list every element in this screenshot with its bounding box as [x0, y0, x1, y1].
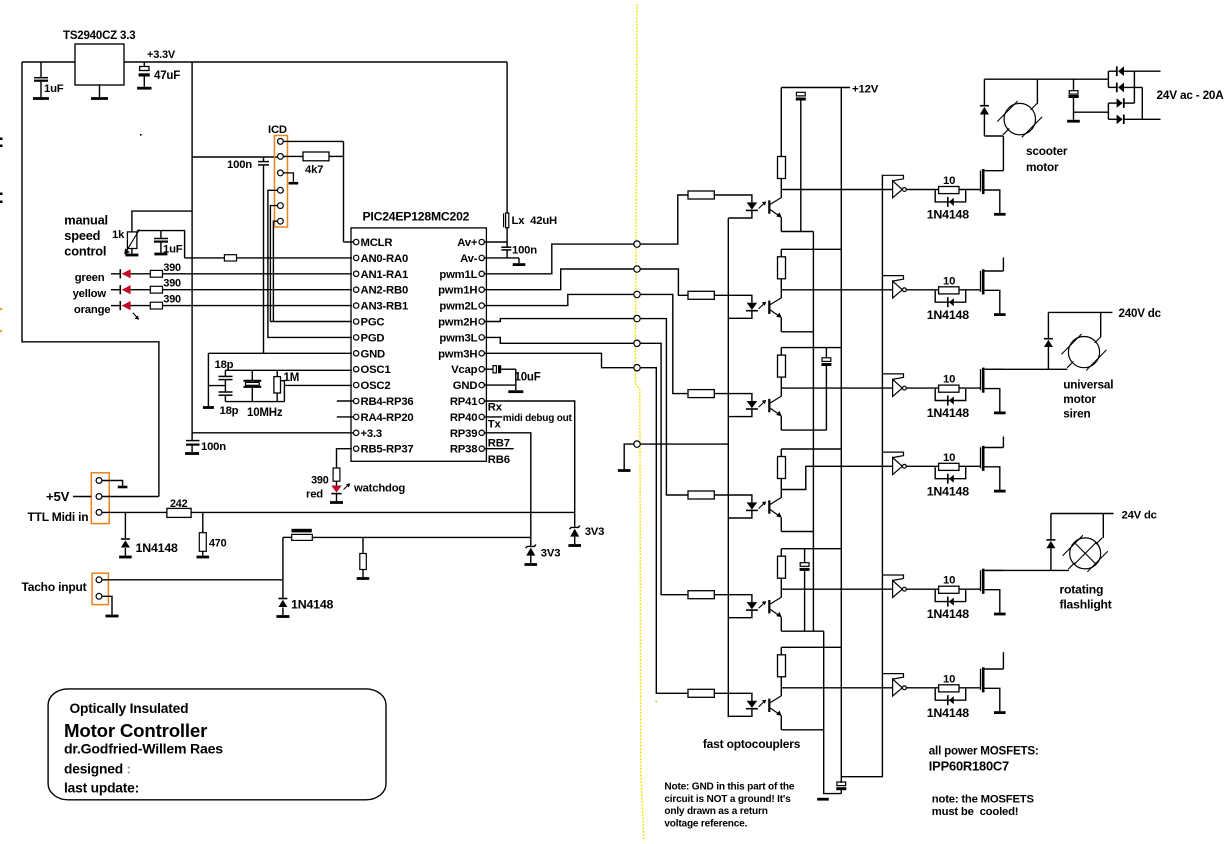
diode D15 1N4148 (gate) [935, 590, 966, 602]
ground for C14 [1067, 120, 1080, 123]
wire bridge AC2 vertical [1141, 87, 1143, 119]
wire node4 to opto4 input [640, 319, 688, 495]
wire node5 to opto5 input [640, 343, 688, 594]
resistor R36 10 (gate) [939, 685, 959, 692]
wire +12V tap stage 4 [780, 449, 782, 457]
wire bridge DC+ vertical [1107, 71, 1109, 87]
wire Q5 drain to flashlight [985, 569, 1069, 571]
wire pull-up 2 bottom lead [780, 279, 782, 290]
wire pwm1L to node [484, 244, 633, 274]
U1 left pin AN3-RB1 [354, 303, 359, 308]
ground for Q1 source [994, 213, 1006, 216]
MOSFET Q4 [980, 447, 982, 468]
wire regulator output +3.3V rail [124, 61, 507, 63]
svg-text:pwm3H: pwm3H [438, 348, 477, 360]
svg-text:1N4148: 1N4148 [136, 541, 179, 555]
U1 left pin OSC2 [354, 382, 359, 387]
ground for return node [618, 469, 631, 472]
resistor R15 (opto 5 input) [688, 591, 714, 599]
svg-text:10: 10 [943, 175, 955, 187]
wire J2 pin1 to ground [102, 481, 123, 486]
svg-text:MCLR: MCLR [361, 237, 393, 249]
wire emitter return bus [812, 232, 814, 632]
wire 18p midpoint to ground net [208, 385, 225, 387]
wire +12V tap stage 2 [780, 249, 782, 256]
svg-text:pwm2L: pwm2L [439, 301, 477, 313]
ground for D3 [525, 563, 538, 566]
svg-text:+3.3: +3.3 [361, 428, 383, 440]
svg-text:1N4148: 1N4148 [927, 406, 970, 420]
potentiometer wiper arrow [126, 230, 140, 253]
opto 1 coupling arrow [759, 203, 765, 209]
svg-text:Motor Controller: Motor Controller [64, 720, 207, 741]
optocoupler U6 LED [747, 502, 758, 509]
svg-text:yellow: yellow [73, 288, 107, 300]
wire orange LED to PIC [163, 305, 353, 307]
svg-text:390: 390 [163, 294, 181, 306]
wire buffer 6 output [906, 687, 938, 689]
U1 right pin pwm1L [479, 271, 484, 276]
wire Q4 drain stub [1002, 437, 1004, 448]
wire pull-up 1 bottom lead [780, 179, 782, 190]
wire LED return bus [727, 218, 729, 717]
svg-text:1N4148: 1N4148 [927, 308, 970, 322]
connector J2 TTL Midi [91, 473, 109, 524]
wire midi line to Rx [191, 511, 575, 513]
wire RB5-RP37 to watchdog [337, 449, 353, 468]
J3 pin 2 [96, 593, 102, 599]
wire crystal bottom rail [225, 401, 284, 403]
opto 4 coupling arrow [759, 503, 765, 509]
wire +3.3V vertical rail [191, 62, 193, 433]
wire pot top to +3.3 rail [132, 211, 192, 232]
wire opto 5 collector [780, 589, 782, 597]
wire ICD pin1 to MCLR net [283, 140, 343, 142]
wire return node to ground [624, 444, 634, 469]
resistor R6 242 [167, 508, 191, 517]
wire Av- line [484, 257, 519, 259]
resistor R26 (opto 6 pull-up) [778, 655, 786, 677]
zener D3 3V3 (RB7) [530, 537, 532, 545]
svg-text:Av+: Av+ [457, 237, 478, 249]
U1 right pin RP39 [479, 430, 484, 435]
optocoupler U3 phototransistor [768, 200, 770, 213]
svg-text::: : [127, 762, 131, 777]
wire +5V input to regulator [22, 61, 75, 63]
wire RB4 stub [337, 400, 354, 402]
J2 pin 3 [96, 510, 102, 516]
svg-text:RP40: RP40 [450, 412, 477, 424]
capacitor C12 (stage 3) [822, 358, 831, 362]
svg-text:pwm1H: pwm1H [438, 285, 477, 297]
motor M1 scooter [1004, 103, 1035, 134]
wire Q2 source [985, 290, 1000, 313]
wire opto 3 emitter [780, 416, 782, 430]
capacitor C6 18p [224, 386, 226, 392]
wire opto 4 collector [780, 490, 782, 498]
diode D26 (siren freewheel) [1047, 312, 1049, 338]
svg-text:10: 10 [943, 452, 955, 464]
wire node1 to opto1 input [640, 195, 688, 244]
ground for Q4 source [994, 490, 1006, 493]
svg-text:PGC: PGC [361, 317, 385, 329]
ground for D4 [568, 544, 581, 547]
svg-text:RP39: RP39 [450, 428, 477, 440]
wire gate stage 3 [959, 387, 981, 389]
svg-text:voltage reference.: voltage reference. [664, 818, 747, 829]
U1 right pin GND [479, 382, 484, 387]
resistor R23 (opto 3 pull-up) [778, 355, 786, 377]
wire emitter line stage 2 [781, 331, 813, 333]
capacitor C5 18p [224, 370, 226, 376]
wire pwm2H to node [484, 319, 633, 322]
svg-text:RA4-RP20: RA4-RP20 [361, 412, 414, 424]
wire OSC1 line [225, 369, 352, 371]
svg-text:10: 10 [943, 673, 955, 685]
wire Q5 source [985, 590, 1000, 613]
optocoupler U6 phototransistor [768, 500, 770, 513]
svg-text:pwm1L: pwm1L [439, 269, 477, 281]
ICD pin 2 [278, 154, 284, 160]
wire opto 2 anode [714, 295, 752, 302]
svg-text:24V ac - 20A: 24V ac - 20A [1157, 88, 1225, 102]
diode D25 bridge [1123, 115, 1125, 125]
capacitor C2 47uF [143, 62, 145, 67]
node pwm feed-through 5 [634, 340, 640, 346]
ground for crystal net [203, 406, 214, 409]
resistor R34 10 (gate) [939, 463, 959, 470]
wire Q3 source [985, 389, 1000, 412]
node pwm feed-through 4 [634, 315, 640, 321]
potentiometer R3 1k [127, 232, 136, 249]
wire buffer 3 output [906, 387, 938, 389]
svg-text:AN2-RB0: AN2-RB0 [361, 285, 409, 297]
wire node6 to opto6 input [640, 368, 688, 694]
svg-text:red: red [306, 489, 323, 501]
wire ICD pin3 to ground [283, 173, 293, 182]
capacitor C3 100n (under +3.3 rail) [186, 440, 200, 442]
wire buffer supply rail [841, 175, 882, 777]
wire pwm1H to node [484, 269, 633, 290]
wire GND pin stub [484, 384, 515, 386]
wire opto 5 cathode return [728, 610, 752, 618]
U1 right pin Vcap [479, 367, 484, 372]
voltage regulator U2 TS2940CZ 3.3 [75, 44, 124, 85]
wire opto 2 to buffer 2 [781, 289, 892, 291]
wire motor2 top lead [1100, 312, 1102, 336]
U1 left pin +3.3 [354, 430, 359, 435]
U1 left pin RB4-RP36 [354, 398, 359, 403]
ground for J2 pin1 [118, 486, 128, 489]
ground for D1 [119, 556, 132, 559]
svg-text:1N4148: 1N4148 [291, 598, 334, 612]
U1 left pin GND [354, 351, 359, 356]
ICD pin 5 [278, 203, 284, 209]
svg-text:GND: GND [361, 348, 386, 360]
wire J2 pin2 +5V [102, 496, 159, 498]
svg-text:PIC24EP128MC202: PIC24EP128MC202 [363, 210, 470, 224]
wire AC1 input [1134, 70, 1160, 72]
wire PGC line [270, 321, 352, 323]
svg-text:RP41: RP41 [450, 396, 477, 408]
wire opto 3 collector [780, 388, 782, 396]
wire RP41 Rx [484, 401, 574, 512]
resistor 390 (yellow) [150, 286, 162, 293]
capacitor C9 10uF (Vcap) [484, 368, 493, 370]
zener D4 3V3 (Rx) [574, 512, 576, 526]
svg-text:TTL Midi in: TTL Midi in [28, 510, 89, 524]
wire gate stage 1 [959, 189, 981, 191]
svg-text:18p: 18p [220, 405, 239, 417]
wire tacho junction up [282, 537, 284, 579]
wire J2 pin3 midi data [102, 511, 167, 513]
buffer/inverter U9c [882, 374, 903, 380]
resistor R33 10 (gate) [939, 385, 959, 392]
wire emitter line stage 3 [781, 429, 826, 431]
ground for pot [131, 249, 133, 254]
wire yellow LED to PIC [163, 289, 353, 291]
wire RP40 Tx stub [484, 416, 502, 418]
wire C4 to GND pin line [263, 165, 265, 353]
ICD pin 4 [278, 187, 284, 193]
svg-text:390: 390 [163, 278, 181, 290]
diode D1 1N4148 [124, 512, 126, 538]
wire opto 1 emitter [780, 217, 782, 231]
svg-text:3V3: 3V3 [585, 526, 605, 538]
svg-text:4k7: 4k7 [305, 164, 323, 176]
wire pwm2L to node [484, 294, 633, 305]
wire opto 6 collector [780, 688, 782, 696]
resistor R7 470 [202, 512, 204, 532]
node return feed-through [634, 441, 640, 447]
wire ICD pin6 to PGC [273, 221, 277, 321]
LED yellow [111, 289, 120, 291]
wire Q3 drain tap [985, 368, 1004, 370]
svg-text:3V3: 3V3 [541, 548, 561, 560]
opto 5 coupling arrow [759, 602, 765, 608]
wire scooter bottom [984, 135, 1003, 137]
svg-text:pwm2H: pwm2H [438, 317, 477, 329]
svg-text:only drawn as a return: only drawn as a return [664, 806, 767, 817]
wire lamp top lead [1102, 514, 1104, 539]
capacitor C1 1uF [40, 62, 42, 77]
ground for watchdog LED [330, 501, 343, 504]
ground for Q5 source [994, 613, 1006, 616]
diode D16 1N4148 (gate) [935, 689, 966, 701]
svg-text:390: 390 [163, 262, 181, 274]
resistor R16 (opto 6 input) [688, 689, 714, 697]
wire GND pin line [208, 352, 352, 354]
MOSFET Q3 [980, 369, 982, 390]
wire +12V bus vertical [840, 88, 842, 784]
ICD pin 1 [278, 139, 284, 145]
MOSFET Q2 [980, 271, 982, 292]
wire node2 to opto2 input [640, 269, 688, 295]
svg-text:Vcap: Vcap [451, 364, 478, 376]
wire flashlight top rail [1051, 513, 1114, 515]
svg-text:motor: motor [1026, 160, 1059, 174]
svg-text:+5V: +5V [46, 489, 70, 504]
wire pull-up 3 bottom lead [780, 377, 782, 388]
ground for J3 pin2 [106, 615, 119, 618]
optocoupler U4 LED [747, 303, 758, 310]
wire Q3 drain to siren [985, 368, 1068, 370]
resistor R13 (opto 3 input) [688, 390, 714, 398]
wire opto 3 anode [714, 394, 752, 401]
wire bridge DC- vertical [1107, 103, 1109, 119]
MOSFET Q6 [980, 669, 982, 690]
wire opto 4 emitter [780, 517, 782, 531]
wire Q1 drain up [1002, 136, 1004, 171]
U1 right pin RP38 [479, 446, 484, 451]
svg-text:100n: 100n [201, 441, 226, 453]
wire J3 pin2 to ground [102, 596, 112, 614]
wire RP38 stub [484, 448, 513, 450]
ground for D2 [276, 615, 289, 618]
svg-text:dr.Godfried-Willem Raes: dr.Godfried-Willem Raes [64, 741, 223, 757]
svg-text:IPP60R180C7: IPP60R180C7 [929, 759, 1009, 774]
U1 left pin PGD [354, 335, 359, 340]
colon mark left margin [0, 193, 3, 196]
U1 right pin pwm2H [479, 319, 484, 324]
wire opto 1 collector [780, 190, 782, 198]
J2 pin 1 [96, 478, 102, 484]
wire opto 6 anode [714, 693, 752, 700]
svg-text:all power MOSFETS:: all power MOSFETS: [929, 745, 1039, 758]
capacitor C7 1uF [160, 231, 162, 239]
wire node3 to opto3 input [640, 294, 688, 393]
wire tacho to RB7 line [312, 536, 531, 538]
wire opto 6 emitter [780, 716, 782, 730]
ground for R9 [357, 577, 370, 580]
node pwm feed-through 1 [634, 241, 640, 247]
U1 left pin AN1-RA1 [354, 271, 359, 276]
svg-text:must be cooled!: must be cooled! [932, 806, 1019, 818]
diode D14 1N4148 (gate) [935, 467, 966, 479]
wire opto 4 anode [714, 495, 752, 502]
svg-text:10uF: 10uF [515, 372, 541, 384]
MOSFET Q5 [980, 570, 982, 591]
ground for return reference [817, 798, 829, 801]
svg-text:PGD: PGD [361, 332, 385, 344]
wire opto 3 cathode return [728, 409, 752, 417]
wire opto 3 to buffer 3 [781, 387, 892, 389]
svg-text:RB4-RP36: RB4-RP36 [361, 396, 414, 408]
ICD pin 3 [278, 170, 284, 176]
svg-text:1uF: 1uF [44, 83, 64, 95]
wire opto 4 cathode return [728, 510, 752, 518]
resistor R2 1M [276, 370, 278, 376]
wire buffer 5 output [906, 588, 938, 590]
svg-text:OSC2: OSC2 [361, 380, 391, 392]
U1 right pin RP41 [479, 398, 484, 403]
svg-text:OSC1: OSC1 [361, 364, 391, 376]
svg-text:siren: siren [1063, 407, 1090, 421]
connector J3 Tacho [92, 573, 108, 604]
wire gate stage 6 [959, 687, 981, 689]
ground for C3 [185, 452, 199, 455]
svg-text:Note: GND in this part of the: Note: GND in this part of the [664, 782, 794, 793]
resistor 390 (green) [150, 270, 162, 277]
wire pwm3L to node [484, 337, 633, 343]
wire opto 2 emitter [780, 318, 782, 332]
ground for Av- [513, 263, 526, 266]
wire J3 pin1 tacho line [102, 579, 283, 581]
U1 left pin AN0-RA0 [354, 255, 359, 260]
svg-text:RB6: RB6 [488, 454, 510, 466]
wire MCLR net vertical [343, 141, 345, 242]
wire emitter line stage 5 [781, 630, 823, 632]
capacitor C4 100n (ICD) [263, 157, 265, 161]
wire opto 1 cathode return [728, 210, 752, 218]
diode D12 1N4148 (gate) [935, 291, 966, 303]
wire +5V left loop [22, 62, 159, 497]
ICD pin 6 [278, 218, 284, 224]
svg-text:18p: 18p [215, 359, 234, 371]
inductor Lx 42uH [506, 62, 508, 213]
resistor R24 (opto 4 pull-up) [778, 457, 786, 479]
node pwm feed-through 3 [634, 291, 640, 297]
svg-text:AN3-RB1: AN3-RB1 [361, 301, 409, 313]
ground for C9 [508, 390, 523, 393]
svg-text:TS2940CZ 3.3: TS2940CZ 3.3 [63, 30, 135, 42]
svg-text:100n: 100n [512, 245, 537, 257]
wire opto 1 to buffer 1 [781, 189, 892, 191]
U1 right pin RP40 [479, 414, 484, 419]
optocoupler U5 phototransistor [768, 399, 770, 412]
wire opto 6 cathode return [728, 709, 752, 717]
optocoupler U8 LED [747, 701, 758, 708]
resistor R21 (opto 1 pull-up) [778, 157, 786, 179]
wire Q1 source [985, 190, 1000, 213]
wire Q2 drain tap [985, 270, 1004, 272]
motor M2 siren [1068, 337, 1099, 368]
wire Q1 drain tap [985, 170, 1004, 172]
capacitor C14 (24V) [1073, 79, 1075, 90]
wire green LED to PIC [163, 273, 353, 275]
svg-text:242: 242 [170, 498, 188, 510]
wire pot to AN0 junction [137, 231, 185, 258]
opto 3 coupling arrow [759, 401, 765, 407]
wire AN0 to PIC [237, 257, 353, 259]
svg-text:RP38: RP38 [450, 444, 477, 456]
svg-text:last update:: last update: [64, 781, 139, 796]
svg-text:AN1-RA1: AN1-RA1 [361, 269, 409, 281]
svg-text:orange: orange [74, 304, 110, 316]
wire opto 5 anode [714, 595, 752, 602]
MOSFET Q1 [980, 171, 982, 192]
diode D24 bridge [1123, 98, 1125, 108]
diode D27 (flashlight freewheel) [1050, 514, 1052, 540]
J2 pin 2 [96, 494, 102, 500]
svg-text:green: green [75, 272, 105, 284]
svg-text:RB5-RP37: RB5-RP37 [361, 444, 414, 456]
svg-text:ICD: ICD [268, 124, 287, 136]
svg-text:universal: universal [1063, 378, 1113, 392]
wire Q4 drain tap [985, 447, 1004, 449]
diode D13 1N4148 (gate) [935, 389, 966, 401]
wire motor1 top lead [1036, 79, 1038, 104]
svg-text:scooter: scooter [1026, 144, 1068, 158]
svg-text:speed: speed [64, 228, 100, 243]
diode D11 1N4148 (gate) [935, 190, 966, 202]
svg-text:10: 10 [943, 575, 955, 587]
wire opto 4 collector bus jog [781, 466, 892, 489]
capacitor C8 100n (Av) [506, 242, 508, 247]
svg-text:note: the MOSFETS: note: the MOSFETS [932, 794, 1035, 806]
U1 right pin pwm2L [479, 303, 484, 308]
wire GND to crystal ground [207, 353, 209, 406]
